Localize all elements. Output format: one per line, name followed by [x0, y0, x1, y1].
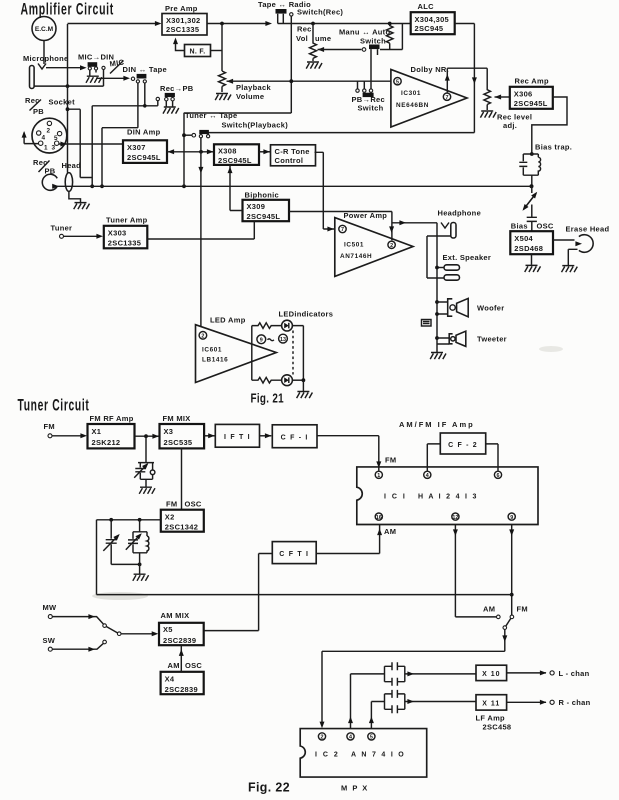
capacitor pair L [385, 662, 405, 685]
svg-text:Microphone: Microphone [23, 54, 69, 63]
svg-text:IC601: IC601 [202, 347, 222, 354]
wire X308 to C-R [259, 151, 271, 153]
svg-text:I F T I: I F T I [224, 434, 251, 441]
svg-text:L - chan: L - chan [559, 669, 590, 678]
svg-text:Pre Amp: Pre Amp [165, 4, 198, 13]
junction [199, 150, 203, 154]
svg-text:2: 2 [201, 334, 204, 340]
ground under MIC-DIN switch [86, 76, 102, 83]
pin 9 [508, 513, 515, 521]
block X11 [476, 695, 507, 710]
contact SW [103, 640, 107, 644]
wire NF vertical [221, 24, 223, 72]
svg-text:MW: MW [43, 603, 58, 612]
IC IC1 HA12413 [357, 467, 538, 525]
LED indicator top [282, 320, 293, 331]
terminal SW [43, 636, 56, 651]
svg-text:Control: Control [275, 156, 304, 165]
svg-text:4: 4 [42, 135, 46, 142]
pin 6 [494, 471, 501, 479]
ground under rec level [480, 111, 496, 118]
block Biphonic X309 [243, 191, 290, 222]
svg-text:AM: AM [384, 527, 396, 536]
svg-text:1: 1 [377, 473, 380, 479]
svg-text:X 11: X 11 [482, 701, 500, 708]
svg-text:2SC1335: 2SC1335 [166, 25, 199, 34]
svg-text:Biphonic: Biphonic [245, 191, 279, 200]
junction [289, 79, 293, 83]
wire LED top right [292, 326, 303, 381]
svg-text:2SC2839: 2SC2839 [165, 685, 198, 694]
svg-text:Headphone: Headphone [438, 209, 482, 218]
svg-text:FM: FM [166, 500, 177, 509]
junction [182, 133, 186, 137]
wire rec line to tape switch [208, 132, 474, 134]
junction [388, 22, 392, 26]
svg-text:R - chan: R - chan [559, 698, 591, 707]
svg-text:I C I: I C I [384, 494, 407, 501]
svg-text:X301,302: X301,302 [166, 16, 201, 25]
wire pin9 down [511, 525, 513, 616]
LED indicator bottom [282, 375, 293, 386]
terminal Tuner [51, 224, 73, 239]
wire to erase head [553, 239, 575, 241]
svg-text:LED Amp: LED Amp [210, 316, 246, 325]
svg-text:DIN Amp: DIN Amp [127, 128, 161, 137]
wire NF left to preamp [176, 40, 185, 51]
junction [66, 84, 70, 88]
block X10 [476, 665, 507, 680]
junction [109, 518, 113, 522]
pin 2 [318, 733, 325, 741]
wire top run to ALC [278, 23, 411, 25]
wire X5 to CFT1 [204, 554, 273, 631]
wire to X11 [405, 701, 476, 703]
svg-text:Switch(Rec): Switch(Rec) [297, 7, 343, 16]
wire LED bottom right [292, 379, 303, 381]
wire X303 output to X309 [147, 221, 254, 239]
switch MIC/DIN-Tape [96, 57, 167, 83]
wire X4 to X5 [180, 646, 182, 672]
wire long AFC line [97, 594, 512, 596]
svg-text:2SC535: 2SC535 [164, 438, 193, 447]
wire E.C.M to mic node [43, 41, 45, 65]
block AM MIX X5 [159, 611, 204, 645]
junction [510, 593, 514, 597]
ground under erase head [562, 266, 578, 273]
wire switch common to IC2 pin2 [322, 651, 505, 723]
svg-text:N. F.: N. F. [190, 49, 206, 56]
wire X1 to X3 [135, 435, 160, 437]
wire to X10 [405, 673, 476, 675]
ground LED [302, 380, 304, 391]
resistor LED bottom [252, 377, 282, 383]
svg-text:H A I 2 4 I 3: H A I 2 4 I 3 [418, 494, 478, 501]
wire X10 to L-chan [507, 672, 546, 674]
svg-text:LF Amp: LF Amp [476, 714, 506, 723]
svg-text:2SC945L: 2SC945L [247, 212, 281, 221]
svg-text:C F T I: C F T I [279, 551, 309, 558]
ground under playback volume [215, 94, 231, 101]
switch Manu-Auto [339, 28, 390, 89]
op-amp LED Amp IC601 [196, 316, 277, 383]
wire tuner to X303 [64, 235, 99, 237]
junction [138, 563, 142, 567]
svg-text:Dolby NR.: Dolby NR. [411, 65, 450, 74]
svg-text:X2: X2 [165, 512, 175, 521]
svg-text:2SC1335: 2SC1335 [108, 238, 141, 247]
tuned circuit FM RF [134, 436, 155, 486]
svg-text:Ext. Speaker: Ext. Speaker [443, 253, 492, 262]
svg-text:IC301: IC301 [401, 90, 421, 97]
svg-text:Tuner Circuit: Tuner Circuit [18, 397, 90, 415]
switch MIC-DIN [78, 53, 114, 76]
junction [182, 184, 186, 188]
connector Ext.Speaker [437, 253, 491, 280]
wire DIN-Tape legs [138, 83, 145, 128]
block CF-2 [440, 433, 485, 454]
svg-text:Manu ↔ Auto: Manu ↔ Auto [339, 28, 390, 37]
wire switch to X5 [121, 633, 154, 635]
svg-text:OSC: OSC [185, 661, 202, 670]
wire left vertical to head [67, 24, 69, 173]
wire X306 output to bias trap [532, 97, 567, 154]
svg-text:FM MIX: FM MIX [163, 414, 191, 423]
wire SW to switch [52, 644, 103, 650]
wire switch to LED amp vertical [200, 138, 202, 326]
svg-text:2: 2 [390, 243, 393, 249]
svg-text:13: 13 [280, 337, 286, 343]
junction [435, 300, 439, 304]
svg-text:Tuner: Tuner [51, 224, 73, 233]
pin 5 [368, 733, 375, 741]
junction [435, 312, 439, 316]
junction [144, 434, 148, 438]
wire preamp output top run [207, 23, 268, 25]
wire tape playback drop [184, 16, 291, 113]
speaker Woofer [437, 298, 505, 316]
svg-text:Rec: Rec [297, 25, 312, 34]
erase head [566, 225, 610, 266]
wire speaker conductor [427, 236, 451, 278]
svg-text:X304,305: X304,305 [415, 15, 450, 24]
block preamp X301,302 [162, 4, 207, 35]
terminal L-chan [550, 669, 590, 678]
svg-text:NE646BN: NE646BN [396, 102, 429, 109]
block CF-1 [272, 425, 317, 448]
svg-text:5: 5 [54, 135, 58, 142]
block ALC X304,305 [411, 2, 455, 34]
svg-text:FM RF Amp: FM RF Amp [90, 414, 134, 423]
terminal FM [44, 422, 55, 438]
switch AM/FM [502, 618, 511, 651]
variable capacitor AFC [103, 520, 139, 565]
svg-text:4: 4 [349, 735, 352, 741]
wire IFT1 to CF-1 [260, 435, 272, 437]
svg-text:Socket: Socket [49, 98, 76, 107]
svg-text:PB: PB [33, 107, 44, 116]
wire pin12 to AM contact [455, 525, 496, 617]
wire X309 to X308 [230, 166, 243, 211]
junction [220, 22, 224, 26]
svg-text:Rec→PB: Rec→PB [160, 84, 194, 93]
microphone symbol [23, 54, 69, 89]
svg-text:M P X: M P X [341, 784, 369, 793]
svg-text:X1: X1 [92, 427, 102, 436]
pin 4 [424, 471, 431, 479]
svg-text:Bias: Bias [511, 222, 528, 231]
svg-text:A N 7 4 I O: A N 7 4 I O [351, 752, 406, 759]
svg-text:Vol: Vol [296, 34, 308, 43]
headphone jack [437, 209, 481, 353]
junction [66, 107, 70, 111]
svg-text:adj.: adj. [503, 121, 517, 130]
svg-text:6: 6 [497, 473, 500, 479]
svg-text:Erase Head: Erase Head [566, 225, 610, 234]
svg-text:X308: X308 [218, 147, 237, 156]
svg-text:Head: Head [62, 161, 82, 170]
junction [435, 336, 439, 340]
ground under speaker line [430, 353, 446, 360]
svg-text:Power Amp: Power Amp [344, 211, 388, 220]
pin 12 [452, 513, 459, 521]
svg-text:2SC945L: 2SC945L [514, 99, 548, 108]
switch Tuner-Tape [184, 111, 288, 138]
svg-text:X306: X306 [514, 89, 533, 98]
svg-text:16: 16 [376, 515, 382, 521]
svg-text:Bias trap.: Bias trap. [535, 143, 572, 152]
svg-text:Switch: Switch [360, 37, 386, 46]
svg-text:2SC945L: 2SC945L [218, 156, 252, 165]
bias trap [519, 143, 572, 186]
wire X2 input line [97, 520, 161, 595]
wire middle-left vertical runs [68, 106, 158, 187]
svg-text:X504: X504 [514, 234, 533, 243]
svg-text:2SC2839: 2SC2839 [163, 636, 196, 645]
wire C-R output down [315, 152, 335, 229]
wire playback line to IC301 [227, 80, 391, 82]
wire LED amp internal vertical [251, 326, 253, 381]
terminal R-chan [550, 698, 591, 707]
ground under X504 [531, 254, 533, 265]
svg-text:3: 3 [52, 145, 56, 152]
svg-text:X303: X303 [108, 228, 127, 237]
capacitor pair R [385, 690, 405, 713]
switch Rec-PB upper [156, 84, 194, 107]
svg-text:FM: FM [517, 605, 528, 614]
svg-text:AM: AM [483, 605, 495, 614]
op-amp IC501 AN7146H [335, 211, 413, 276]
block CFT1 [272, 542, 316, 564]
wire over power amp [289, 212, 392, 241]
wire long head line [57, 185, 531, 187]
svg-text:5: 5 [396, 79, 399, 85]
svg-text:2: 2 [47, 128, 51, 135]
head core [65, 173, 72, 192]
speaker Tweeter [437, 331, 507, 346]
svg-text:IC501: IC501 [344, 242, 364, 249]
svg-text:Amplifier Circuit: Amplifier Circuit [21, 1, 115, 19]
junction [138, 518, 142, 522]
wire socket pin1 left [24, 133, 38, 144]
svg-text:C-R Tone: C-R Tone [275, 147, 310, 156]
svg-text:FM: FM [44, 422, 55, 431]
svg-text:C F - I: C F - I [281, 434, 309, 441]
tuned circuit FM OSC [126, 520, 149, 574]
svg-text:5: 5 [370, 735, 373, 741]
svg-text:Tuner Amp: Tuner Amp [106, 216, 148, 225]
svg-text:C F - 2: C F - 2 [448, 442, 478, 449]
block Tuner Amp X303 [104, 216, 148, 249]
block N.F. [185, 45, 211, 57]
microphone E.C.M [32, 17, 56, 41]
ground under Rec-PB switch [163, 107, 179, 114]
svg-text:E.C.M: E.C.M [35, 26, 54, 33]
svg-text:ALC: ALC [418, 2, 435, 11]
svg-text:Playback: Playback [236, 83, 271, 92]
svg-text:Tweeter: Tweeter [477, 335, 507, 344]
svg-text:LEDindicators: LEDindicators [279, 310, 334, 319]
block X308 [214, 144, 259, 165]
svg-text:2SC1342: 2SC1342 [165, 523, 198, 532]
svg-text:LB1416: LB1416 [202, 357, 228, 364]
wire X307 to X308 [167, 151, 214, 153]
wire CF-2 to pins 4 and 6 [427, 444, 498, 471]
junction [435, 266, 439, 270]
junction bias [530, 184, 534, 188]
smudge [539, 346, 563, 352]
svg-text:1: 1 [44, 145, 48, 152]
svg-text:Fig. 22: Fig. 22 [248, 781, 290, 795]
wire head core ground [69, 191, 81, 202]
svg-text:DIN ↔ Tape: DIN ↔ Tape [123, 65, 168, 74]
wire CFT1 to IC1 pin16 [316, 525, 379, 554]
svg-text:2SC945: 2SC945 [415, 24, 444, 33]
switch MW/SW [103, 624, 121, 636]
svg-text:2SC458: 2SC458 [483, 723, 512, 732]
svg-text:12: 12 [452, 515, 458, 521]
svg-text:OSC: OSC [185, 500, 202, 509]
variable resistor bias adjust [521, 186, 540, 217]
svg-text:2SD468: 2SD468 [514, 244, 543, 253]
wire socket pin3 to DIN amp [59, 143, 123, 145]
head Rec/PB [33, 158, 81, 190]
svg-text:X3: X3 [164, 427, 174, 436]
svg-text:I C 2: I C 2 [315, 752, 340, 759]
potentiometer Rec Volume [296, 24, 362, 62]
wire Dolby NR [411, 65, 488, 92]
svg-text:ume: ume [315, 34, 331, 43]
potentiometer Playback Volume [219, 71, 272, 101]
block AM OSC X4 [161, 661, 204, 694]
block DIN Amp X307 [123, 128, 167, 163]
wire MW to switch [52, 617, 103, 624]
block IFT1 [215, 424, 259, 447]
svg-text:X4: X4 [165, 674, 175, 683]
wire FM to X1 [52, 435, 83, 437]
svg-text:Rec Amp: Rec Amp [515, 77, 549, 86]
svg-text:2: 2 [321, 735, 324, 741]
resistor small [422, 320, 432, 327]
svg-text:7: 7 [446, 95, 449, 101]
wire switch right leg to rec line [207, 133, 209, 135]
svg-text:SW: SW [43, 636, 56, 645]
resistor near ALC [380, 24, 402, 50]
svg-text:Tuner ↔ Tape: Tuner ↔ Tape [185, 111, 238, 120]
block FM MIX X3 [160, 414, 205, 448]
pin 4 [347, 733, 354, 741]
ground under rec volume [306, 62, 322, 69]
block FM OSC X2 [161, 500, 204, 532]
wire dashed LED [292, 331, 294, 375]
wire X3 to IFT1 [204, 435, 215, 437]
svg-text:X 10: X 10 [482, 671, 500, 678]
svg-text:2SC945L: 2SC945L [127, 153, 161, 162]
wire X3 to FM OSC [181, 448, 183, 509]
wire NF right [211, 50, 223, 52]
op-amp IC301 NE646BN [391, 70, 467, 128]
terminal MW [43, 603, 58, 619]
capacitor bias osc [527, 217, 537, 231]
block Bias OSC X504 [510, 222, 554, 255]
svg-text:X5: X5 [163, 625, 173, 634]
ground under head [74, 203, 90, 210]
ground FM tank [139, 487, 155, 494]
socket Rec/PB DIN [25, 96, 75, 153]
wire pin5 up [371, 702, 384, 729]
label LF Amp 2SC458 [476, 714, 512, 732]
resistor LED top [252, 323, 282, 329]
junction [302, 378, 306, 382]
pin 16 [375, 513, 382, 521]
terminal AM [483, 605, 500, 619]
wire preamp input [68, 23, 157, 25]
switch Tape-Radio [258, 0, 343, 24]
junction [311, 22, 315, 26]
svg-text:Volume: Volume [236, 92, 264, 101]
svg-text:Fig. 21: Fig. 21 [251, 392, 285, 406]
svg-text:2SK212: 2SK212 [92, 438, 121, 447]
ground FM OSC tank [133, 574, 149, 581]
svg-text:Switch(Playback): Switch(Playback) [222, 121, 289, 130]
junction [90, 184, 94, 188]
pin 1 [375, 471, 382, 479]
svg-text:OSC: OSC [537, 222, 554, 231]
wire CF-1 to IC1 pin1 [317, 436, 379, 471]
wire X11 to R-chan [507, 701, 546, 703]
svg-text:AM: AM [168, 661, 180, 670]
svg-text:AM MIX: AM MIX [161, 611, 190, 620]
switch PB-Rec [352, 81, 385, 112]
junction [100, 184, 104, 188]
svg-text:9: 9 [510, 515, 513, 521]
svg-text:X307: X307 [127, 143, 146, 152]
pins 9-13 [257, 334, 288, 343]
junction [143, 104, 147, 108]
wire mic to MIC-DIN switch [46, 67, 82, 69]
svg-text:AN7146H: AN7146H [340, 253, 372, 260]
wire mic lower line [34, 70, 104, 87]
wire power amp out to headphone [392, 222, 437, 224]
wire y127 run [102, 128, 138, 187]
block FM RF Amp X1 [88, 414, 135, 448]
IC IC2 AN7410 [300, 729, 427, 778]
svg-text:7: 7 [341, 227, 344, 233]
svg-text:4: 4 [426, 473, 429, 479]
block Rec Amp X306 [510, 77, 553, 109]
svg-text:FM: FM [385, 456, 396, 465]
svg-text:9: 9 [260, 338, 263, 344]
